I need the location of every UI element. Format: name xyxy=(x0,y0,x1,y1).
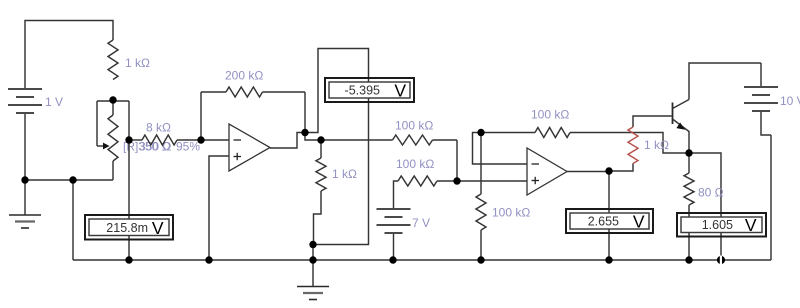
svg-text:10 V: 10 V xyxy=(780,94,800,108)
svg-text:V: V xyxy=(152,218,164,238)
svg-text:V: V xyxy=(633,211,645,231)
svg-text:95%: 95% xyxy=(176,140,200,154)
svg-text:-5.395: -5.395 xyxy=(345,83,380,97)
svg-text:1 kΩ: 1 kΩ xyxy=(644,138,669,152)
svg-text:100 kΩ: 100 kΩ xyxy=(395,119,433,133)
svg-text:7 V: 7 V xyxy=(412,216,430,230)
svg-text:V: V xyxy=(394,80,406,100)
svg-text:8 kΩ: 8 kΩ xyxy=(146,121,171,135)
svg-text:1 kΩ: 1 kΩ xyxy=(332,167,357,181)
svg-text:100 kΩ: 100 kΩ xyxy=(396,157,434,171)
svg-text:215.8m: 215.8m xyxy=(106,221,148,235)
svg-text:1 kΩ: 1 kΩ xyxy=(125,56,150,70)
svg-text:100 kΩ: 100 kΩ xyxy=(492,206,530,220)
svg-text:80 Ω: 80 Ω xyxy=(698,186,724,200)
svg-text:V: V xyxy=(745,215,757,235)
svg-text:1.605: 1.605 xyxy=(702,218,733,232)
svg-text:350 Ω: 350 Ω xyxy=(139,140,171,154)
svg-text:1 V: 1 V xyxy=(45,95,63,109)
svg-text:100 kΩ: 100 kΩ xyxy=(531,108,569,122)
svg-text:2.655: 2.655 xyxy=(588,214,619,228)
svg-text:200 kΩ: 200 kΩ xyxy=(225,69,263,83)
